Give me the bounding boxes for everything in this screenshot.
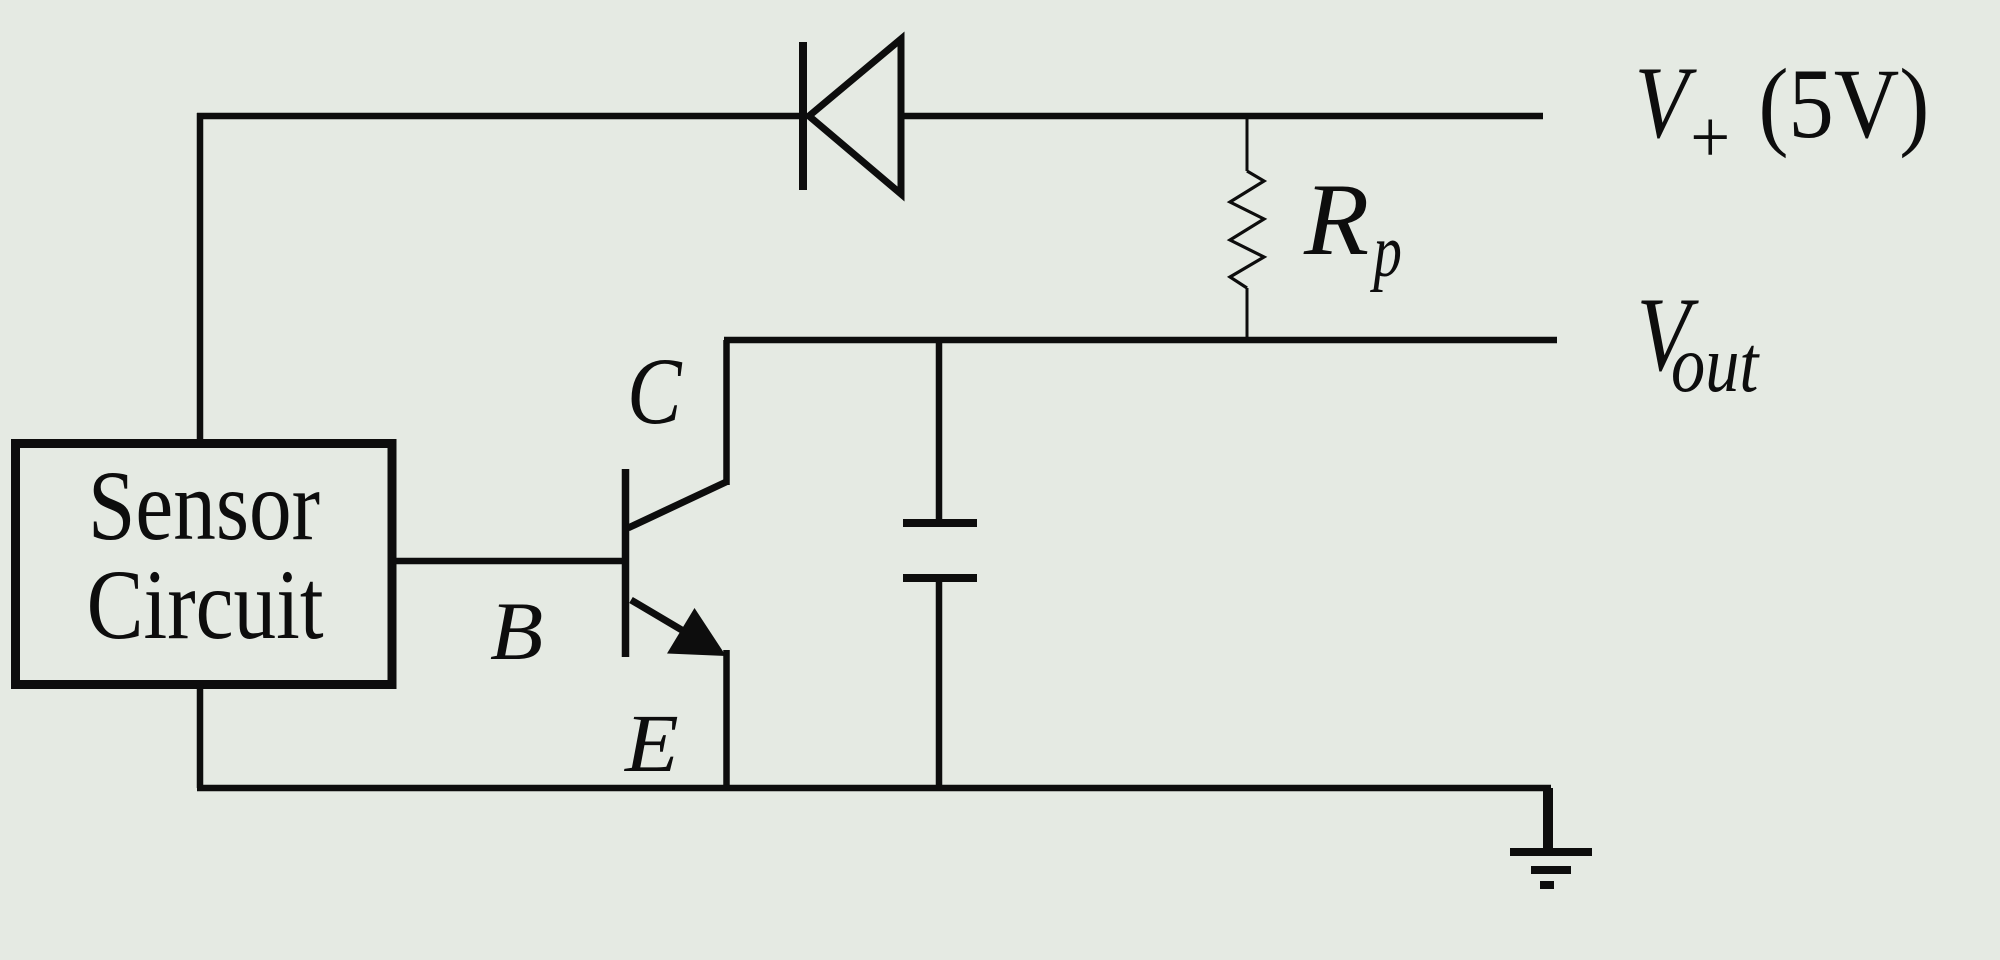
resistor Rp top lead: [1246, 116, 1249, 171]
transistor Q1 base bar: [622, 469, 630, 657]
transistor Q1 collector diagonal: [628, 482, 726, 528]
ground bar 2: [1531, 866, 1571, 874]
capacitor C1 top wire: [936, 340, 943, 523]
svg-text:E: E: [624, 697, 679, 789]
capacitor C1 bottom wire: [936, 578, 943, 788]
svg-text:Circuit: Circuit: [87, 549, 324, 660]
svg-text:Sensor: Sensor: [88, 450, 320, 561]
transistor Q1 emitter diagonal: [631, 600, 702, 642]
svg-text:B: B: [490, 585, 543, 677]
wire: left vertical from top rail to sensor box: [197, 113, 204, 443]
wire: V+ top rail left segment: [197, 113, 803, 120]
diode D1 cathode bar: [799, 42, 807, 190]
svg-text:p: p: [1370, 210, 1402, 293]
svg-text:out: out: [1671, 319, 1760, 409]
wire: base wire from sensor box to transistor: [392, 558, 625, 565]
transistor Q1 emitter arrowhead: [667, 608, 726, 656]
ground bar 3: [1540, 881, 1554, 889]
capacitor C1 top plate: [903, 519, 977, 527]
ground bar 1: [1510, 848, 1592, 856]
sensor circuit box: [16, 444, 393, 685]
wire: sensor box bottom to ground rail: [197, 684, 204, 788]
diode D1 triangle: [809, 39, 901, 194]
wire: collector vertical to Vout rail: [723, 340, 730, 485]
capacitor C1 bottom plate: [903, 574, 977, 582]
resistor Rp zigzag: [1230, 171, 1264, 288]
svg-text:C: C: [627, 338, 683, 444]
svg-text:(5V): (5V): [1758, 48, 1929, 159]
resistor Rp bottom lead: [1246, 288, 1249, 338]
svg-text:+: +: [1690, 96, 1730, 179]
wire: Vout rail: [724, 337, 1557, 344]
wire: V+ top rail right segment: [901, 113, 1543, 120]
svg-text:V: V: [1635, 46, 1697, 160]
svg-text:R: R: [1303, 163, 1369, 277]
wire: ground rail: [197, 785, 1551, 792]
wire: emitter vertical to ground rail: [723, 650, 730, 788]
ground stub: [1543, 788, 1553, 851]
